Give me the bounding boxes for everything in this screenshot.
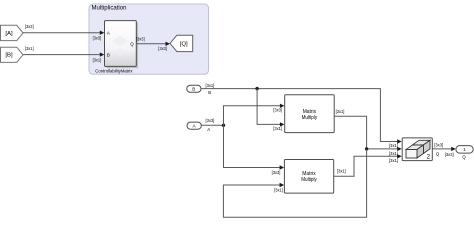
wire loop to MatrixMultiply2 input2 [223, 149, 366, 217]
from tag B [1, 47, 24, 62]
wire subsystem Q to goto tag Q [136, 42, 170, 46]
svg-text:[3x1]: [3x1] [389, 143, 398, 148]
svg-text:1: 1 [463, 147, 466, 152]
svg-text:[3x3]: [3x3] [25, 24, 34, 29]
svg-text:A: A [107, 31, 110, 36]
svg-text:[3x1]: [3x1] [389, 151, 398, 156]
wire A branch up to MatrixMultiply1 input1 [224, 104, 285, 126]
svg-text:[3x1]: [3x1] [274, 187, 283, 192]
outport 1 [456, 146, 473, 154]
svg-text:Multiply: Multiply [302, 115, 318, 121]
svg-text:[3x3]: [3x3] [434, 143, 443, 148]
label [3x1] at concat input1 [389, 143, 398, 148]
inport A [187, 122, 201, 129]
svg-text:B: B [107, 52, 110, 57]
block MatrixMultiply2 [284, 160, 333, 194]
svg-text:[3x1]: [3x1] [389, 158, 398, 163]
svg-text:Q: Q [462, 154, 466, 159]
svg-text:Multiply: Multiply [301, 177, 317, 183]
svg-text:[3x3]: [3x3] [93, 35, 102, 40]
svg-text:[3x1]: [3x1] [337, 169, 346, 174]
svg-text:Q: Q [130, 42, 134, 47]
wire MatrixMultiply2 output to concat input3 [334, 154, 402, 176]
label [3x1] on wire B near tag [25, 46, 34, 51]
goto tag Q [170, 35, 193, 51]
label [3x1] at concat input2 [389, 151, 398, 156]
svg-text:[3x1]: [3x1] [25, 46, 34, 51]
junction on B wire [255, 87, 258, 90]
svg-text:[Q]: [Q] [180, 42, 189, 48]
label [3x3] on wire Q near goto tag [158, 46, 167, 51]
label [3x3] on concat output [434, 143, 443, 148]
wire B tag to subsystem port B [23, 52, 104, 56]
label [3x3] at MatrixMultiply1 input1 [273, 107, 282, 112]
label [3x1] at concat input3 [389, 158, 398, 163]
svg-text:[3x3]: [3x3] [272, 170, 281, 175]
name label Q under outport [462, 154, 466, 159]
block MatrixMultiply1 [285, 95, 335, 133]
label [3x1] on wire from inport B [206, 83, 215, 88]
svg-text:ControllabilityMatrix: ControllabilityMatrix [95, 69, 133, 75]
svg-text:A: A [207, 127, 210, 132]
area Multiplication [89, 4, 209, 74]
inport B [187, 85, 201, 92]
svg-text:[3x3]: [3x3] [273, 107, 282, 112]
svg-text:B: B [192, 87, 195, 92]
label [3x3] on wire Q near subsystem [136, 37, 145, 42]
svg-text:Multiplication: Multiplication [92, 5, 127, 11]
label [3x3] at MatrixMultiply2 input1 [272, 170, 281, 175]
label [3x3] on wire A near subsystem [93, 35, 102, 40]
svg-text:[3x1]: [3x1] [206, 83, 215, 88]
wire B branch to MatrixMultiply1 input2 [257, 89, 284, 127]
label [3x1] at MatrixMultiply1 output [336, 109, 345, 114]
svg-text:[3x3]: [3x3] [445, 152, 454, 157]
label [3x1] at MatrixMultiply2 output [337, 169, 346, 174]
wire A tag to subsystem port A [23, 31, 104, 35]
svg-text:[3x1]: [3x1] [93, 57, 102, 62]
wire B main to concat input1 [201, 89, 402, 144]
svg-text:[B]: [B] [5, 53, 13, 59]
svg-text:B: B [208, 90, 211, 95]
label [3x3] near outport [445, 152, 454, 157]
name label A [207, 127, 210, 132]
svg-text:[3x1]: [3x1] [273, 126, 282, 131]
svg-text:[3x3]: [3x3] [206, 118, 215, 123]
name label B [208, 90, 211, 95]
from tag A [1, 25, 24, 40]
signal name Q on concat output [436, 151, 440, 156]
label [3x3] on wire from inport A [206, 118, 215, 123]
svg-text:[3x3]: [3x3] [136, 37, 145, 42]
svg-text:Q: Q [436, 151, 440, 156]
label [3x1] at MatrixMultiply1 input2 [273, 126, 282, 131]
junction on MatrixMultiply1 output wire [365, 147, 368, 150]
junction on A wire [222, 124, 225, 127]
label [3x1] at MatrixMultiply2 input2 [274, 187, 283, 192]
svg-text:[3x3]: [3x3] [158, 46, 167, 51]
label [3x1] on wire B near subsystem [93, 57, 102, 62]
svg-text:[3x1]: [3x1] [336, 109, 345, 114]
svg-text:[A]: [A] [5, 31, 13, 37]
block MatrixConcatenate [402, 138, 432, 161]
subsystem ControllabilityMatrix [95, 21, 138, 75]
wire MatrixMultiply1 output to concat input2 [334, 116, 402, 151]
wire concat output to outport Q [432, 147, 455, 151]
wire A branch down to MatrixMultiply2 input1 [224, 125, 285, 169]
label [3x3] on wire A near tag [25, 24, 34, 29]
wire A to junction [201, 124, 223, 126]
